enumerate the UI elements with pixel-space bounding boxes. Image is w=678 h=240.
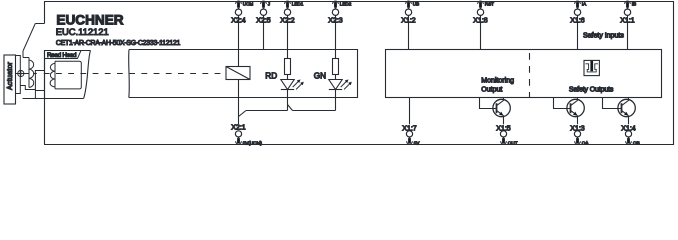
transistor Q2 emitter wire: [577, 116, 579, 125]
svg-text:X1:5: X1:5: [496, 126, 511, 133]
Safety Outputs label: [569, 87, 614, 94]
terminal X2:4 (UCM): [231, 1, 253, 25]
transistor Q2 collector wire: [571, 98, 578, 106]
dashed axis line to relay: [40, 73, 226, 75]
transistor Q3 collector wire: [622, 98, 629, 106]
wire X1:7 from box: [409, 98, 411, 125]
svg-text:UB: UB: [413, 1, 419, 6]
rail right segment: [293, 110, 336, 112]
housing step to actuator coil: [23, 57, 29, 59]
resistor R2: [333, 59, 339, 75]
wire X2:4 to relay: [238, 15, 240, 66]
transistor Q3 base wire: [603, 98, 622, 109]
svg-text:X1:7: X1:7: [402, 126, 417, 133]
terminal X2:3 (LED2): [328, 1, 351, 25]
svg-text:Safety Outputs: Safety Outputs: [569, 87, 614, 94]
svg-text:UCM: UCM: [243, 1, 254, 6]
Monitoring Output label: [481, 77, 514, 93]
svg-text:LED1: LED1: [292, 1, 304, 6]
transistor Q3: [618, 99, 635, 116]
wire LED RD down: [287, 90, 289, 111]
transistor Q1 base wire: [480, 98, 497, 109]
read head housing bottom: [23, 98, 84, 100]
transistor Q1: [493, 99, 510, 116]
wire R1 to LED RD: [287, 75, 289, 80]
Safety Inputs label: [583, 33, 624, 40]
dashed divider: [529, 50, 531, 98]
resistor R1: [285, 59, 291, 75]
main electronics box (left): [129, 50, 358, 98]
svg-text:OA: OA: [582, 141, 590, 146]
rail bevel to relay wire: [239, 111, 247, 117]
svg-text:X1:3: X1:3: [570, 126, 585, 133]
svg-text:X1:4: X1:4: [621, 126, 636, 133]
wire X1:6 to box: [577, 15, 579, 49]
actuator bracket clamp: [16, 56, 21, 94]
wire LED GN down: [335, 90, 337, 111]
terminal X1:8 (RST): [473, 1, 494, 25]
wire X2:3 to resistor: [335, 15, 337, 58]
actuator coil L1: [29, 58, 34, 88]
wire X1:8 to box: [480, 15, 482, 49]
actuator bracket finger: [20, 86, 35, 90]
read head label tab: [45, 51, 82, 59]
transistor Q1 collector wire: [497, 98, 504, 106]
wire relay to X2:1: [238, 80, 240, 125]
EUCHNER logo block: [56, 12, 181, 47]
read head coil frame: [55, 61, 81, 89]
svg-text:OB: OB: [633, 141, 640, 146]
terminal X1:6 (IA): [570, 1, 587, 25]
terminal X1:1 (IB): [620, 1, 636, 25]
svg-text:Actuator: Actuator: [7, 61, 14, 90]
wire X2:5 to box: [263, 15, 265, 49]
read head box: [45, 51, 91, 99]
wire X1:2 to box: [408, 15, 410, 49]
svg-text:Monitoring: Monitoring: [481, 77, 514, 84]
svg-text:EUC.112121: EUC.112121: [56, 26, 109, 37]
terminal X2:1 (0V UCM): [231, 125, 262, 146]
read head coil L2: [50, 61, 55, 89]
terminal X2:2 (LED1): [280, 1, 303, 25]
transistor Q2: [567, 99, 584, 116]
wire X2:2 to resistor: [287, 15, 289, 58]
svg-text:IB: IB: [632, 1, 636, 6]
svg-text:Read Head: Read Head: [47, 52, 77, 59]
terminal X1:3 (OA): [570, 126, 589, 146]
terminal X1:7 (0V): [402, 126, 420, 146]
terminal X1:4 (OB): [621, 126, 639, 146]
actuator box: [4, 55, 16, 104]
LED RD: [265, 72, 303, 90]
wire X1:1 to box: [627, 15, 629, 49]
LED common rail left: [246, 110, 288, 112]
svg-text:GN: GN: [314, 72, 326, 81]
terminal X1:5 (OUT): [496, 126, 517, 146]
axis dash in air gap: [33, 73, 37, 75]
svg-text:LED2: LED2: [340, 1, 352, 6]
svg-text:RST: RST: [485, 1, 494, 6]
rail bevel at RD wire: [288, 105, 293, 111]
transistor Q2 base wire: [554, 98, 571, 109]
cable notch diagonal: [23, 24, 35, 52]
relay K1: [226, 67, 250, 80]
svg-text:Output: Output: [481, 86, 502, 93]
svg-text:OUT: OUT: [508, 141, 518, 146]
guard locking icon: [584, 60, 599, 75]
svg-text:Safety Inputs: Safety Inputs: [583, 33, 624, 40]
svg-text:J: J: [268, 1, 270, 6]
transistor Q3 emitter wire: [628, 116, 630, 125]
housing left vertical: [22, 51, 24, 58]
svg-text:0V: 0V: [414, 141, 421, 146]
outer border frame of device: [45, 2, 674, 145]
svg-text:IA: IA: [582, 1, 587, 6]
terminal X2:5 (J): [256, 1, 271, 25]
cable notch horizontal: [35, 23, 44, 25]
terminal X1:2 (UB): [401, 1, 419, 25]
transistor Q1 emitter wire: [503, 116, 505, 125]
LED GN: [314, 72, 352, 90]
wire R2 to LED GN: [335, 75, 337, 80]
read head nose: [35, 71, 44, 99]
transponder circle-cross node: [16, 70, 30, 76]
svg-text:0V(UCM): 0V(UCM): [243, 141, 263, 146]
svg-text:CET1-AR-CRA-AH-50X-SG-C2333-11: CET1-AR-CRA-AH-50X-SG-C2333-112121: [56, 40, 181, 47]
svg-text:RD: RD: [265, 72, 277, 81]
safety evaluation box (right): [386, 50, 662, 98]
